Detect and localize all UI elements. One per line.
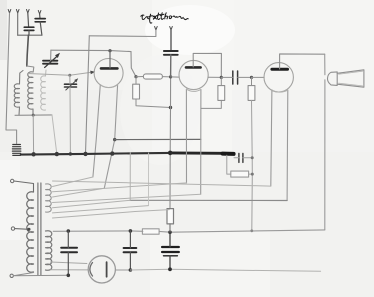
wire grid3 to tube3 [252, 76, 265, 78]
wire W1 top row [51, 50, 131, 51]
wire Tm2 down to Ctop [170, 30, 172, 51]
wire R4 bottom left [201, 100, 221, 108]
fan line V3 neck left [53, 181, 271, 186]
wire cathode row y139 [115, 138, 201, 140]
wire W1 corner down to plate junction [131, 52, 136, 77]
handwriting Tejelthon [141, 13, 188, 23]
tube V2 envelope [179, 60, 208, 89]
wire coil L2 top lead [27, 66, 34, 72]
wire antenna joining bar [18, 34, 42, 36]
wire VC1 top to W1 [50, 50, 52, 61]
tube V1 envelope [94, 59, 123, 88]
wire L2 bottom [32, 109, 34, 115]
terminal Tm1 [155, 27, 158, 31]
wire grid2 to tube2 [171, 76, 180, 78]
junction V2 right [220, 76, 223, 79]
wire L1 bottom [18, 107, 21, 115]
wire L3 bottom to bus [52, 115, 57, 154]
fan line f3 [53, 188, 105, 197]
V4 anode bar [106, 262, 108, 277]
capacitor CA2 [35, 19, 45, 22]
fan line f5 + dark segment to V3 neck [53, 200, 131, 208]
junction B+ filter2 [129, 229, 133, 233]
inductor L2 [28, 72, 33, 109]
wire C23 leads [221, 76, 251, 78]
wire Cf2 leads [129, 231, 131, 270]
terminal primary top [11, 179, 14, 182]
resistor R6 horizontal [227, 155, 231, 174]
wire VC2 top lead [69, 75, 71, 84]
bus junction blobs [31, 152, 35, 156]
inductor L1 [14, 84, 19, 107]
main bus line [21, 153, 170, 155]
wire B+ right drop [324, 54, 326, 230]
wire terminal1 down-left to ground [6, 13, 17, 144]
wire V2 anode lead up-right [193, 53, 221, 77]
wire CA2 bottom to bar [40, 22, 42, 35]
wire S2 filament leads [51, 262, 87, 264]
resistor R7 horizontal [142, 229, 159, 234]
fan line f7 to R8 top [53, 210, 170, 218]
transformer core [38, 183, 41, 275]
junction coil bar [32, 114, 35, 117]
tube V2 anode bar [186, 66, 201, 69]
antenna terminal 4 [38, 11, 41, 15]
variable capacitor VC1 [43, 61, 57, 64]
capacitor C23 series [233, 71, 238, 84]
wire terminal4 down [39, 14, 41, 18]
junction Cg bottom [168, 267, 172, 271]
capacitor C6 bus end [239, 153, 243, 162]
wire Cf1 leads [67, 231, 69, 275]
capacitor Ctop [164, 51, 178, 55]
wire C6 leads [234, 157, 252, 159]
wire primary tap lead [15, 228, 29, 231]
resistor R5 vertical [251, 77, 253, 85]
antenna terminal 2 [16, 10, 19, 14]
speaker horn [337, 70, 364, 87]
tube V3 neck [271, 90, 272, 186]
wire terminal2 down [17, 13, 19, 35]
wire x170 vertical long [169, 77, 172, 209]
junction x170 [169, 106, 172, 109]
junction tube1 anode [108, 49, 111, 52]
junction B+ R5 end [250, 229, 253, 232]
wire bottom row right [130, 269, 320, 271]
wire V4 right lead [115, 269, 130, 271]
wire Cg leads [169, 232, 171, 269]
wire Ctop bottom lead [170, 55, 172, 77]
tube V1 anode bar [101, 67, 117, 70]
ground symbol [12, 145, 20, 156]
speaker driver [327, 72, 337, 86]
junction grid2 [169, 75, 172, 78]
tube V3 envelope [264, 63, 293, 92]
fan line f4 [53, 194, 201, 202]
resistor R1 vertical [135, 77, 137, 85]
V4 cathode arc [90, 263, 93, 277]
terminal Tm2 [170, 27, 173, 31]
wire R5 bottom long down [251, 100, 254, 230]
wire V1 anode lead [109, 51, 111, 68]
wire VC2 bottom to bus [69, 87, 71, 154]
junction Cf2 bottom [129, 268, 133, 272]
rectifier tube V4 [88, 256, 115, 283]
fan line f1 [53, 177, 93, 187]
VC1 arrow [45, 57, 57, 68]
terminal primary tap [11, 227, 14, 230]
wire V3 anode lead up-right [280, 54, 325, 69]
wire coil bottom bar [15, 114, 52, 116]
capacitor Cf1 [61, 248, 77, 253]
terminal primary bottom [10, 274, 13, 277]
transformer primary [27, 192, 34, 272]
resistor R2 coupling [136, 76, 143, 78]
wire terminal3 down [27, 13, 30, 27]
wire R1 bottom to x170 [136, 99, 171, 108]
wire coil bar down to bus [32, 115, 34, 154]
wire L3 top faint [45, 70, 48, 76]
fan line f6 [53, 206, 149, 213]
tube V1 neck [93, 85, 100, 177]
fan line f2 [53, 183, 187, 192]
tube V2 neck [185, 89, 187, 183]
junction grid3 [250, 76, 253, 79]
wire L1 top hook [20, 71, 24, 85]
inductor L3 faint [41, 76, 46, 110]
wire x87 down to bus [86, 36, 90, 153]
wire f5 riser x130 [129, 153, 131, 201]
antenna terminal 1 [8, 10, 11, 14]
VC2 arrow [66, 81, 76, 90]
B+ wire bottom row [159, 230, 325, 232]
junction B+ R8 [168, 230, 172, 234]
junction VC2 top [68, 74, 71, 77]
capacitor CA1 [24, 27, 34, 30]
wire primary bottom lead [13, 273, 68, 276]
junction V1 cathode [113, 138, 116, 141]
junction C6 right [251, 156, 254, 159]
grid wire row left [28, 72, 92, 75]
junction plate-load [134, 75, 137, 78]
wire CA1 bottom [28, 30, 30, 35]
capacitor Cg electrolytic [162, 247, 179, 252]
wire Tm1 down-left [89, 30, 156, 37]
resistor R8 vertical [167, 209, 174, 224]
variable capacitor VC2 [65, 84, 77, 87]
capacitor Cf2 [124, 248, 137, 252]
tube V3 anode bar [272, 68, 288, 71]
wire f6 riser x148 [148, 153, 150, 206]
junction Cf1 bottom [67, 274, 71, 278]
junction primary tap [27, 228, 30, 231]
wire primary top lead [14, 181, 34, 192]
wire bar down to coil [27, 35, 29, 66]
transformer secondary S1 [46, 184, 52, 212]
bus thick end [223, 152, 234, 156]
transformer secondary S2 [46, 231, 52, 271]
wire V2 plate row right [208, 76, 221, 78]
antenna terminal 3 [27, 10, 30, 14]
grid arrow tube1 [90, 71, 95, 75]
resistor R4 vertical [220, 77, 222, 85]
junction B+ filter1 [67, 229, 71, 233]
